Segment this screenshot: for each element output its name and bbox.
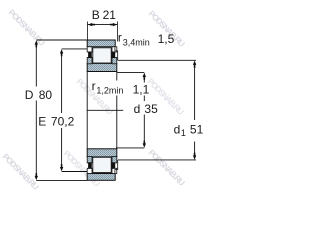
svg-text:51: 51 — [190, 122, 204, 136]
d extension line bottom — [116, 147, 144, 149]
inner ring flange right (bottom section) — [112, 157, 117, 174]
D connector top — [36, 39, 87, 41]
inner ring bottom bar — [87, 149, 117, 157]
E arrow up — [60, 49, 63, 56]
D arrow down — [35, 173, 38, 180]
outer ring bottom bar — [87, 174, 115, 181]
inner ring top bar — [87, 63, 117, 71]
B extension line right — [117, 22, 119, 42]
svg-text:r: r — [92, 79, 96, 93]
d arrow down — [143, 141, 146, 148]
E connector bottom — [62, 171, 88, 173]
centerline / axis — [87, 109, 123, 111]
d1 arrow down — [193, 153, 196, 160]
svg-text:PODSNAB.RU: PODSNAB.RU — [1, 151, 41, 191]
svg-text:35: 35 — [144, 102, 158, 116]
inner ring right side-face step and flange OD edge (bottom section) — [115, 160, 118, 173]
E arrow down — [60, 164, 63, 171]
D connector bottom — [36, 179, 87, 181]
svg-text:r: r — [118, 30, 122, 44]
B arrow left — [88, 23, 95, 26]
svg-text:3,4min: 3,4min — [123, 37, 150, 47]
roller (top section) — [93, 48, 111, 63]
B extension line left — [87, 22, 89, 41]
D arrow up — [35, 40, 38, 47]
svg-text:1,5: 1,5 — [158, 32, 175, 46]
inner ring flange right (top section) — [112, 47, 117, 64]
svg-text:1,1: 1,1 — [133, 83, 150, 97]
d1 extension line bottom — [118, 159, 196, 161]
d1 dimension line — [194, 65, 196, 156]
B dimension line — [88, 24, 118, 26]
svg-text:80: 80 — [39, 88, 53, 102]
svg-text:1: 1 — [181, 128, 186, 138]
svg-text:70,2: 70,2 — [51, 114, 75, 128]
bore silhouette lines — [87, 72, 117, 149]
svg-text:D: D — [25, 88, 34, 102]
d arrow up — [143, 73, 146, 80]
svg-text:B: B — [92, 8, 100, 22]
D dimension line — [35, 45, 37, 177]
d1 extension line top — [118, 59, 196, 61]
watermark — [1, 7, 187, 191]
svg-text:1,2min: 1,2min — [96, 85, 123, 95]
E connector top — [62, 48, 88, 50]
cage squares (bottom section) — [88, 162, 115, 168]
svg-text:PODSNAB.RU: PODSNAB.RU — [147, 147, 187, 187]
outer ring top bar — [87, 40, 115, 47]
d extension line top — [117, 71, 145, 73]
roller (bottom section) — [93, 157, 111, 172]
d1 arrow up — [193, 61, 196, 68]
svg-text:E: E — [38, 114, 46, 128]
svg-text:21: 21 — [103, 8, 117, 22]
svg-text:d: d — [134, 102, 141, 116]
svg-text:PODSNAB.RU: PODSNAB.RU — [7, 7, 47, 47]
inner ring flange left (bottom section) — [87, 157, 92, 174]
inner ring flange left (top section) — [87, 47, 92, 64]
cage squares (top section) — [88, 52, 115, 58]
E dimension line — [61, 53, 63, 167]
B arrow right — [110, 23, 117, 26]
svg-text:d: d — [174, 122, 181, 136]
d dimension line — [143, 77, 145, 143]
inner ring right side-face step and flange OD edge (top section) — [115, 47, 118, 60]
